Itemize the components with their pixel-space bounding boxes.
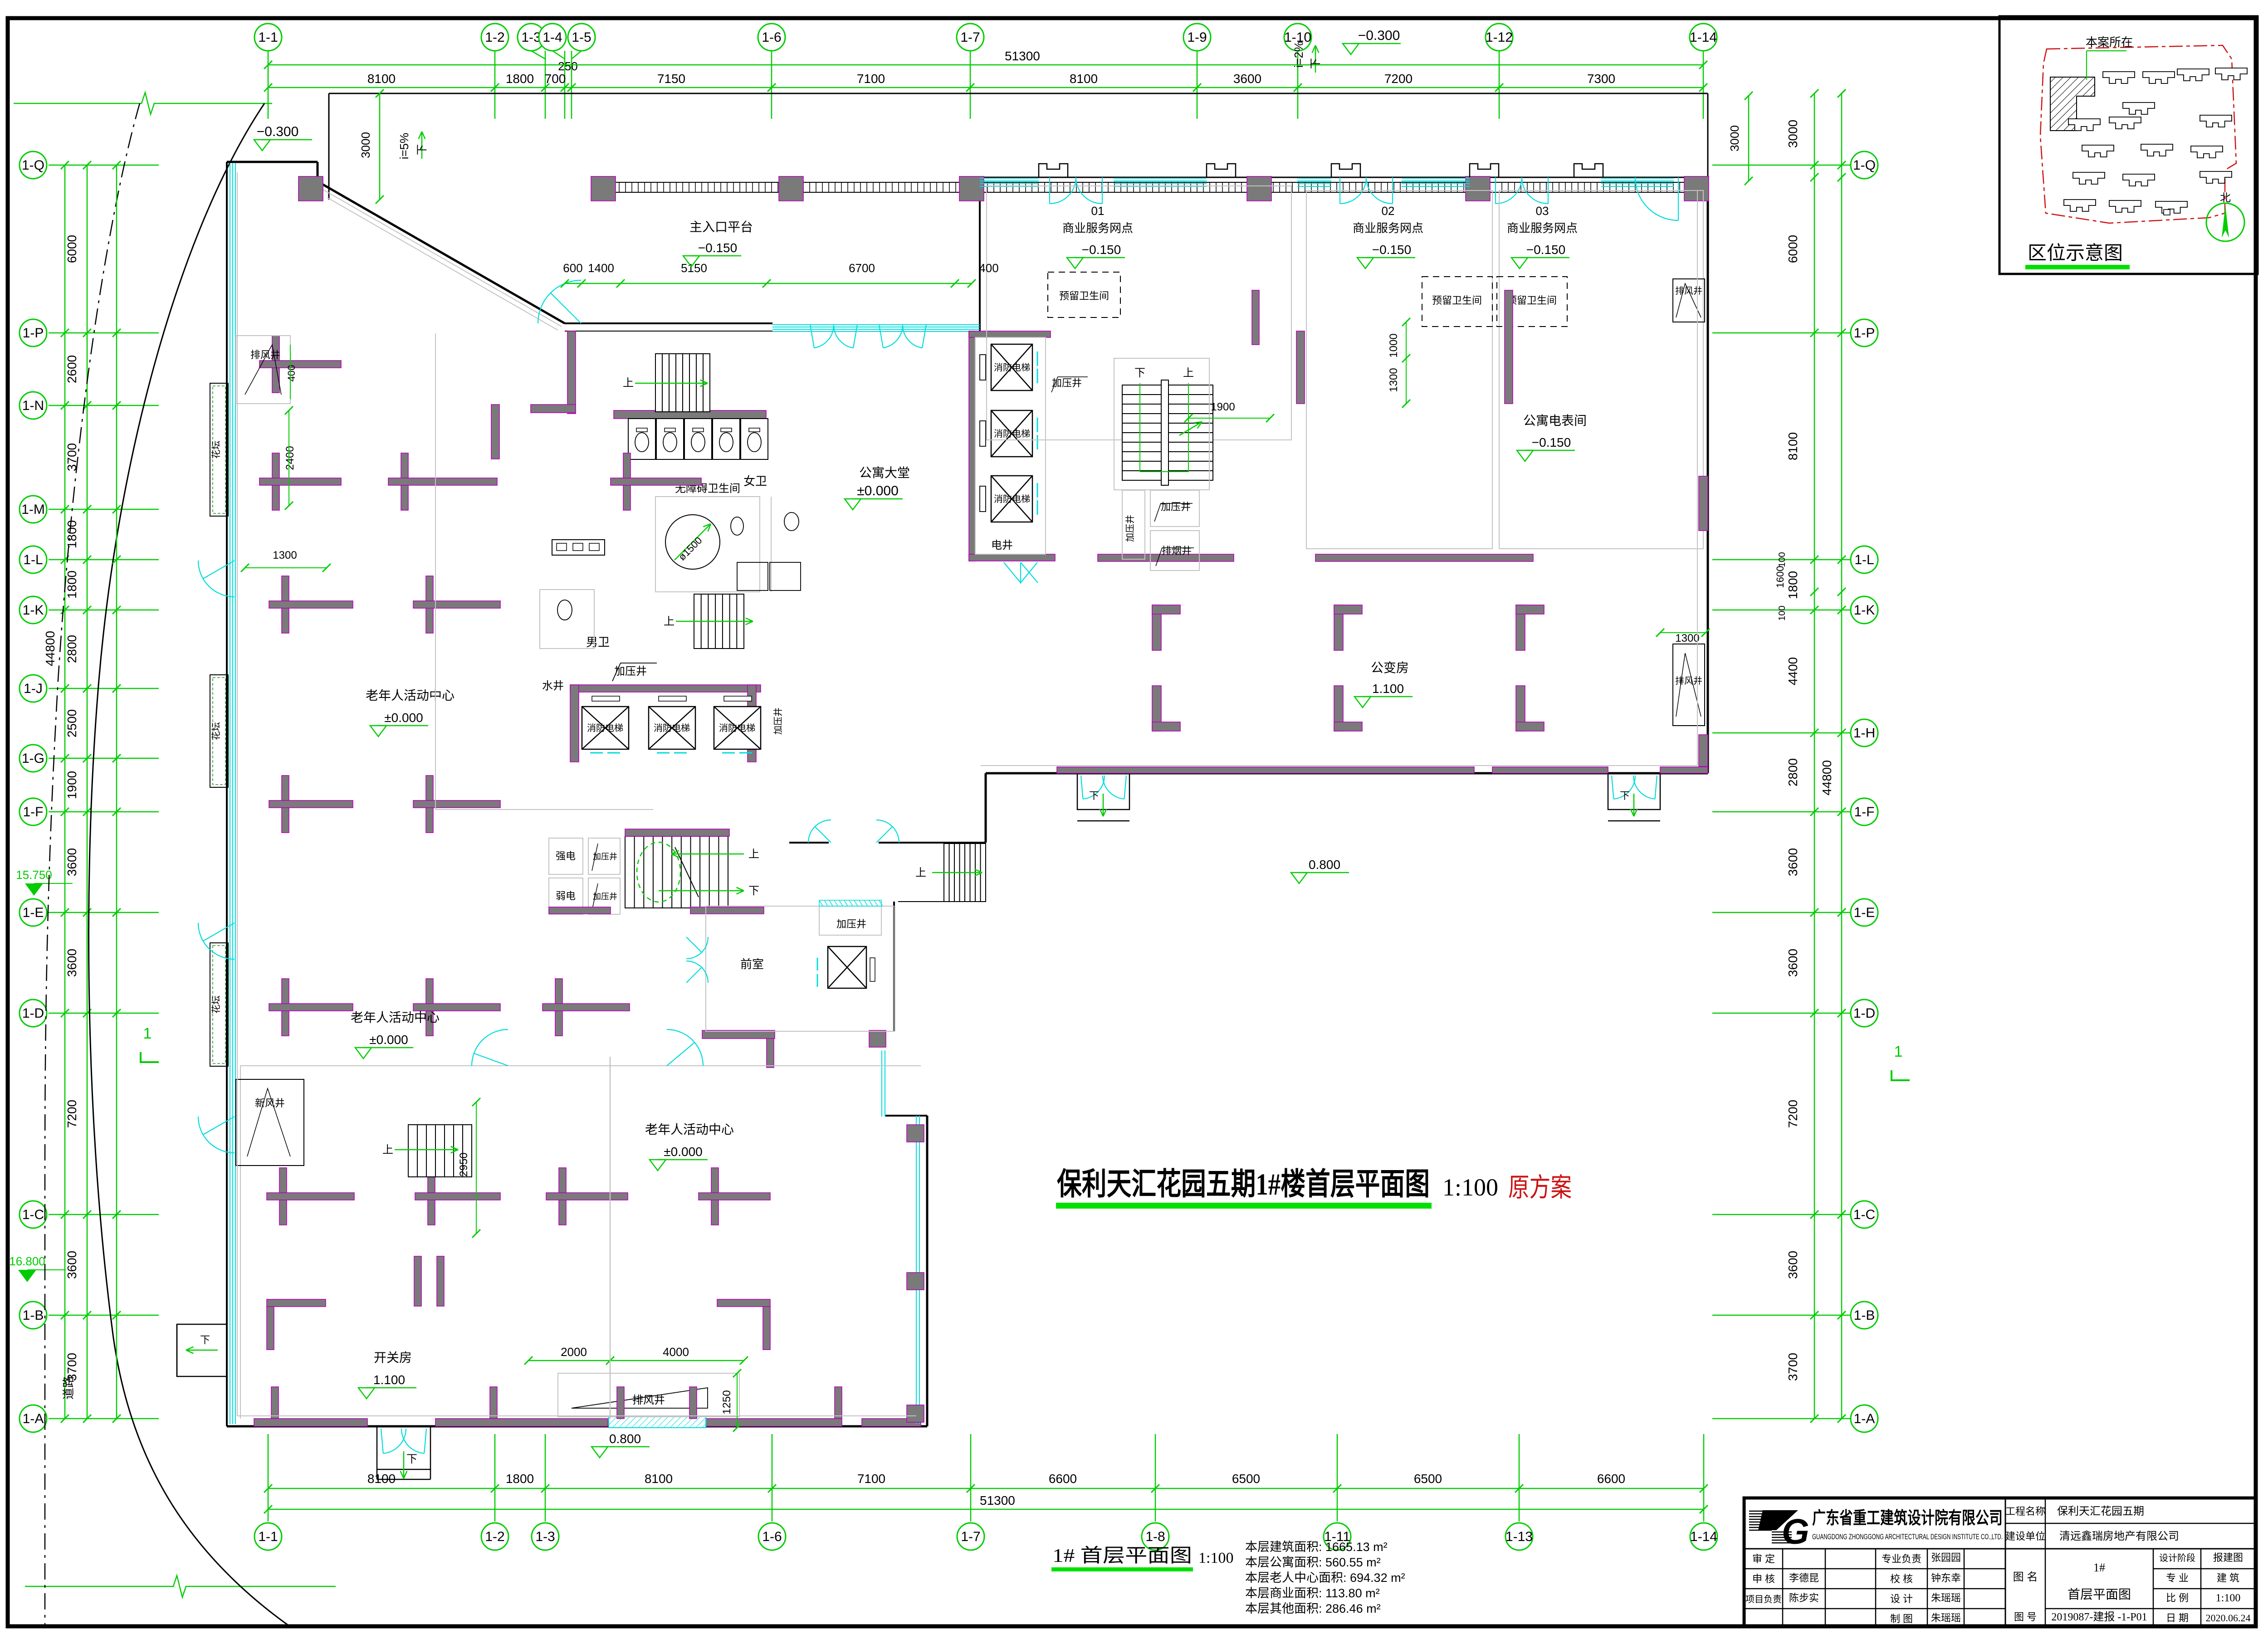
svg-text:7100: 7100 [857, 72, 885, 86]
svg-text:加压井: 加压井 [1052, 377, 1082, 389]
svg-text:1:100: 1:100 [1442, 1174, 1498, 1201]
svg-text:400: 400 [979, 261, 998, 275]
svg-text:15.750: 15.750 [16, 868, 52, 882]
core left wall [969, 331, 975, 561]
svg-text:广东省重工建筑设计院有限公司: 广东省重工建筑设计院有限公司 [1812, 1509, 2003, 1528]
svg-text:1900: 1900 [1211, 401, 1235, 413]
svg-text:下: 下 [416, 144, 428, 155]
svg-text:专业负责: 专业负责 [1882, 1553, 1921, 1565]
right wing inner light lines [981, 765, 1697, 766]
platform dim 3000 left [379, 93, 381, 200]
site boundary green line bottom-left with break symbol [25, 1586, 163, 1587]
transformer room wall brackets [1152, 605, 1161, 650]
svg-text:2600: 2600 [65, 355, 79, 383]
location map frame [1999, 16, 2258, 274]
stair 1 (upper) [655, 354, 710, 412]
storefront entrance double doors (cyan) [1049, 177, 1050, 204]
svg-text:2020.06.24: 2020.06.24 [2206, 1612, 2251, 1624]
svg-text:1800: 1800 [506, 1472, 534, 1486]
svg-text:弱电: 弱电 [556, 890, 576, 902]
svg-text:i=5%: i=5% [397, 133, 411, 160]
svg-text:3600: 3600 [65, 949, 79, 977]
wall bar [269, 800, 353, 808]
svg-text:2500: 2500 [65, 709, 79, 737]
svg-text:1-N: 1-N [22, 398, 44, 413]
edge column [907, 1273, 924, 1290]
svg-text:−0.150: −0.150 [1526, 243, 1565, 257]
svg-text:排风井: 排风井 [632, 1394, 665, 1406]
dim row 600 1400 5150 6700 400 [565, 283, 972, 284]
left wing inner face lines [237, 172, 238, 1416]
svg-text:前室: 前室 [740, 957, 764, 971]
left inner dimension line [116, 165, 117, 1419]
entrance door on diagonal [551, 293, 581, 323]
svg-text:1900: 1900 [65, 771, 79, 799]
svg-text:强电: 强电 [556, 850, 576, 862]
svg-text:1600: 1600 [1774, 566, 1786, 588]
doors inside hall [474, 1054, 508, 1066]
svg-text:1: 1 [143, 1025, 152, 1042]
svg-text:商业服务网点: 商业服务网点 [1353, 221, 1423, 235]
svg-text:1-6: 1-6 [762, 1529, 782, 1544]
inner recess walls [985, 773, 987, 843]
svg-text:6000: 6000 [1786, 235, 1800, 263]
svg-text:1-2: 1-2 [485, 1529, 504, 1544]
svg-text:设计阶段: 设计阶段 [2159, 1553, 2195, 1563]
svg-text:1:100: 1:100 [2216, 1592, 2241, 1604]
exit porch right wing 2 [1608, 773, 1660, 810]
svg-text:本层建筑面积: 1665.13 m²: 本层建筑面积: 1665.13 m² [1245, 1540, 1388, 1554]
green underline of title [1056, 1203, 1432, 1209]
interior partition left wing vertical [610, 1057, 611, 1419]
mid elevator row walls [570, 685, 761, 692]
svg-text:51300: 51300 [980, 1493, 1015, 1507]
svg-text:8100: 8100 [1070, 72, 1098, 86]
corner shop door (cyan) [1678, 177, 1679, 220]
svg-text:排风井: 排风井 [1675, 676, 1702, 686]
svg-text:2400: 2400 [284, 446, 296, 470]
svg-text:1-1: 1-1 [258, 30, 278, 45]
svg-text:日 期: 日 期 [2166, 1612, 2189, 1624]
svg-text:6500: 6500 [1414, 1472, 1442, 1486]
svg-text:51300: 51300 [1005, 49, 1040, 63]
svg-text:1800: 1800 [65, 520, 79, 548]
svg-text:项目负责: 项目负责 [1745, 1594, 1782, 1605]
svg-text:±0.000: ±0.000 [384, 711, 423, 725]
svg-text:上: 上 [748, 848, 759, 860]
svg-text:电井: 电井 [991, 539, 1013, 551]
svg-text:下: 下 [200, 1334, 210, 1346]
upper stair right of core [1122, 385, 1213, 480]
svg-text:1-E: 1-E [23, 905, 44, 920]
svg-text:1300: 1300 [1388, 368, 1400, 392]
svg-text:±0.000: ±0.000 [857, 483, 899, 498]
left wing right edge curtain wall [916, 1116, 917, 1424]
svg-text:1-12: 1-12 [1486, 30, 1513, 45]
svg-text:4400: 4400 [1786, 657, 1800, 685]
bottom row stubs [271, 1387, 279, 1419]
top axis bubbles and vertical grid lines [268, 51, 269, 119]
platform dim 3000 right [1748, 96, 1750, 181]
walls around scissor stair [625, 829, 729, 836]
mid fire elevators [582, 707, 629, 749]
svg-text:1300: 1300 [1675, 632, 1699, 644]
svg-text:2000: 2000 [561, 1345, 587, 1359]
wall bar [413, 1004, 500, 1011]
svg-text:100: 100 [1777, 605, 1787, 620]
svg-text:报建图: 报建图 [2213, 1552, 2243, 1563]
wall bar [267, 1193, 354, 1200]
svg-text:花坛: 花坛 [211, 995, 221, 1014]
svg-text:1-M: 1-M [21, 502, 45, 517]
svg-text:1-A: 1-A [23, 1411, 44, 1426]
exit porch bottom-left [377, 1426, 430, 1469]
svg-text:1-D: 1-D [22, 1006, 44, 1021]
svg-text:1-14: 1-14 [1690, 1529, 1717, 1544]
svg-text:3000: 3000 [1786, 120, 1800, 148]
svg-text:排烟井: 排烟井 [1162, 545, 1192, 556]
svg-text:比 例: 比 例 [2166, 1592, 2189, 1604]
svg-text:消防电梯: 消防电梯 [654, 723, 690, 733]
svg-text:01: 01 [1091, 204, 1105, 218]
column [959, 176, 984, 201]
svg-text:上: 上 [664, 615, 675, 628]
svg-text:02: 02 [1382, 204, 1395, 218]
svg-text:申 核: 申 核 [1752, 1573, 1775, 1585]
svg-text:03: 03 [1536, 204, 1549, 218]
top overall dimension 51300 [268, 64, 1703, 66]
svg-text:250: 250 [558, 59, 577, 73]
svg-text:审 定: 审 定 [1752, 1553, 1775, 1565]
doors on left face [203, 561, 235, 579]
svg-text:0.800: 0.800 [609, 1432, 641, 1446]
svg-text:1250: 1250 [721, 1390, 733, 1414]
core room outline [975, 337, 1046, 554]
svg-text:0.800: 0.800 [1309, 858, 1340, 872]
svg-text:1-H: 1-H [1853, 726, 1875, 741]
svg-text:3600: 3600 [1786, 1251, 1800, 1279]
svg-text:8100: 8100 [645, 1472, 673, 1486]
wall bar [259, 478, 341, 485]
bottom wall gray band with window [254, 1419, 367, 1426]
covered walkway strip [613, 182, 1696, 183]
svg-text:保利天汇花园五期: 保利天汇花园五期 [2057, 1505, 2144, 1517]
reserved toilet dashed boxes [1048, 272, 1120, 317]
svg-text:1#: 1# [2093, 1561, 2105, 1574]
svg-text:1-K: 1-K [1854, 603, 1875, 618]
storefront door frames (black) [1039, 164, 1068, 177]
right dimension chain [1814, 93, 1815, 1419]
svg-text:张园园: 张园园 [1931, 1552, 1961, 1563]
svg-text:3600: 3600 [65, 1251, 79, 1279]
top-left vent room [236, 336, 290, 404]
svg-text:北: 北 [2220, 192, 2231, 204]
svg-text:±0.000: ±0.000 [369, 1033, 408, 1047]
left axis bubbles and horizontal grid lines [49, 165, 159, 166]
wall bar [413, 800, 500, 808]
toilet stalls nvwei [628, 419, 655, 459]
svg-text:1-D: 1-D [1853, 1006, 1875, 1021]
svg-text:1-9: 1-9 [1187, 30, 1207, 45]
building outline: bottom of right wing [986, 772, 1708, 775]
canopy / platform top edge [329, 93, 1708, 94]
bottom dimension chain [268, 1488, 1704, 1489]
shafts paiqijing shuijing [737, 562, 768, 590]
svg-text:1-G: 1-G [22, 751, 44, 766]
svg-text:花坛: 花坛 [211, 441, 221, 459]
svg-text:图 号: 图 号 [2014, 1611, 2037, 1623]
building outline: top-left block [227, 161, 318, 163]
small WC right [784, 512, 799, 531]
svg-text:2019087-建报 -1-P01: 2019087-建报 -1-P01 [2051, 1611, 2147, 1623]
dims 2000 4000 [528, 1360, 744, 1361]
svg-text:1-2: 1-2 [485, 30, 504, 45]
lobby storefront glazing (cyan) [772, 324, 980, 325]
svg-text:1800: 1800 [1786, 571, 1800, 599]
column [298, 176, 323, 201]
nvwei top wall [614, 410, 766, 419]
stair bottom-left [408, 1125, 472, 1177]
svg-text:加压井: 加压井 [1161, 501, 1191, 512]
svg-text:8100: 8100 [1786, 432, 1800, 460]
wall bar [546, 1193, 628, 1200]
svg-text:老年人活动中心: 老年人活动中心 [366, 688, 455, 702]
svg-text:公寓大堂: 公寓大堂 [859, 466, 910, 480]
svg-text:本层老人中心面积: 694.32 m²: 本层老人中心面积: 694.32 m² [1245, 1571, 1405, 1585]
svg-text:制 图: 制 图 [1890, 1613, 1913, 1624]
svg-text:首层平面图: 首层平面图 [2068, 1587, 2131, 1601]
svg-text:1-K: 1-K [23, 603, 44, 618]
svg-text:600: 600 [563, 261, 582, 275]
svg-text:6600: 6600 [1597, 1472, 1625, 1486]
lobby left wall [567, 331, 576, 414]
wall bar [543, 1004, 630, 1011]
svg-text:7300: 7300 [1587, 72, 1615, 86]
building outline: bottom face of left wing [227, 1425, 927, 1428]
svg-text:女卫: 女卫 [743, 474, 767, 488]
svg-text:上: 上 [623, 377, 634, 389]
svg-text:朱瑶瑶: 朱瑶瑶 [1931, 1592, 1961, 1604]
svg-text:加压井: 加压井 [593, 852, 617, 861]
svg-text:下: 下 [1089, 790, 1099, 801]
svg-text:1400: 1400 [588, 261, 614, 275]
svg-text:±0.000: ±0.000 [664, 1145, 702, 1159]
svg-text:1-C: 1-C [1853, 1207, 1875, 1222]
svg-text:消防电梯: 消防电梯 [587, 723, 623, 733]
svg-text:钟东幸: 钟东幸 [1931, 1572, 1961, 1584]
svg-text:保利天汇花园五期1#楼首层平面图: 保利天汇花园五期1#楼首层平面图 [1057, 1167, 1430, 1201]
svg-text:16.800: 16.800 [9, 1254, 45, 1268]
wall bar [259, 361, 341, 368]
svg-text:3000: 3000 [359, 132, 372, 158]
svg-text:44800: 44800 [43, 631, 57, 666]
svg-text:3600: 3600 [1786, 949, 1800, 977]
svg-text:原方案: 原方案 [1508, 1173, 1572, 1202]
svg-text:下: 下 [1310, 58, 1322, 69]
svg-text:1-F: 1-F [23, 805, 44, 819]
svg-text:消防电梯: 消防电梯 [719, 723, 755, 733]
right edge gray walls [1699, 476, 1708, 531]
svg-text:7200: 7200 [65, 1100, 79, 1128]
title block outer [1744, 1498, 2256, 1627]
parcel boundary curve (dash-dot) [45, 103, 140, 1627]
right wing interior gray walls [1296, 331, 1305, 404]
svg-text:排风井: 排风井 [1675, 286, 1702, 296]
svg-text:商业服务网点: 商业服务网点 [1062, 221, 1133, 235]
lobby front wall [565, 322, 772, 324]
svg-text:1.100: 1.100 [373, 1373, 405, 1387]
svg-text:设 计: 设 计 [1890, 1593, 1913, 1605]
svg-text:1-L: 1-L [23, 552, 43, 567]
left face exit porch [177, 1324, 227, 1376]
washbasin counter [552, 540, 605, 555]
svg-text:上: 上 [915, 867, 926, 879]
svg-text:图 名: 图 名 [2013, 1571, 2038, 1583]
svg-text:工程名称: 工程名称 [2005, 1506, 2045, 1517]
svg-text:本层商业面积: 113.80 m²: 本层商业面积: 113.80 m² [1245, 1586, 1380, 1600]
svg-text:400: 400 [286, 365, 297, 382]
svg-text:开关房: 开关房 [374, 1351, 412, 1365]
lobby inner light lines [435, 333, 436, 810]
vent shafts right edge [1673, 279, 1705, 322]
svg-text:1-7: 1-7 [960, 30, 980, 45]
core top bar [969, 331, 1051, 337]
bottom axis bubbles and vertical grid lines [268, 1434, 269, 1522]
svg-text:校 核: 校 核 [1890, 1573, 1913, 1585]
svg-text:商业服务网点: 商业服务网点 [1507, 221, 1578, 235]
svg-text:44800: 44800 [1820, 760, 1834, 795]
svg-text:区位示意图: 区位示意图 [2028, 243, 2123, 264]
column [1466, 176, 1490, 201]
edge column [907, 1125, 924, 1142]
svg-text:老年人活动中心: 老年人活动中心 [645, 1122, 734, 1137]
svg-text:李德昆: 李德昆 [1789, 1572, 1819, 1584]
red parcel boundary [2040, 45, 2236, 223]
svg-text:3600: 3600 [1233, 72, 1261, 86]
svg-text:1-14: 1-14 [1690, 30, 1717, 45]
svg-text:1-P: 1-P [23, 326, 44, 341]
edge column [907, 1405, 924, 1422]
svg-text:1-1: 1-1 [258, 1529, 278, 1544]
svg-text:加压井: 加压井 [836, 918, 866, 930]
svg-text:7200: 7200 [1786, 1100, 1800, 1128]
svg-text:2800: 2800 [65, 635, 79, 663]
svg-text:1-A: 1-A [1854, 1411, 1875, 1426]
svg-text:1800: 1800 [65, 571, 79, 599]
svg-text:下: 下 [748, 885, 759, 897]
core exit door cyan [1004, 562, 1021, 583]
storefront line top right [980, 177, 1708, 178]
svg-text:道路: 道路 [62, 1376, 75, 1400]
svg-text:新风井: 新风井 [255, 1098, 285, 1109]
svg-text:消防电梯: 消防电梯 [994, 429, 1030, 439]
svg-text:7200: 7200 [1384, 72, 1413, 86]
right axis bubbles and horizontal grid lines [1712, 165, 1851, 166]
svg-text:1: 1 [1894, 1043, 1903, 1060]
svg-text:1300: 1300 [273, 549, 297, 561]
lobby entrance double doors (cyan) [810, 325, 814, 348]
curtain wall right edge of qianshi [881, 1050, 882, 1117]
column [779, 176, 803, 201]
outdoor stair at inner corner [944, 844, 986, 902]
svg-text:下: 下 [406, 1453, 417, 1465]
svg-text:1-J: 1-J [24, 681, 43, 696]
svg-text:7100: 7100 [857, 1472, 885, 1486]
svg-text:−0.300: −0.300 [1358, 28, 1400, 43]
svg-text:预留卫生间: 预留卫生间 [1432, 295, 1482, 306]
stair room outline [1114, 358, 1209, 490]
svg-text:加压井: 加压井 [773, 707, 783, 735]
svg-text:预留卫生间: 预留卫生间 [1507, 295, 1557, 306]
site building hatched (ben an suo zai) [2050, 77, 2095, 131]
planters (hua tan) on left face [210, 383, 228, 516]
svg-text:老年人活动中心: 老年人活动中心 [351, 1010, 440, 1024]
xinfengjing room bottom-left [236, 1079, 304, 1166]
wall bar [413, 601, 500, 608]
row B corner walls [267, 1299, 326, 1307]
bottom vent room (pai feng jing) [558, 1373, 739, 1417]
column [591, 176, 616, 201]
accessible WC [655, 497, 760, 592]
svg-text:3600: 3600 [1786, 848, 1800, 876]
svg-text:−0.300: −0.300 [257, 124, 299, 139]
left face curtain wall (cyan) [230, 163, 230, 1424]
svg-text:1800: 1800 [506, 72, 534, 86]
core bottom bar [969, 554, 1055, 561]
svg-text:2950: 2950 [458, 1152, 470, 1176]
svg-text:本层公寓面积: 560.55 m²: 本层公寓面积: 560.55 m² [1245, 1556, 1381, 1569]
svg-text:男卫: 男卫 [586, 635, 610, 649]
svg-text:−0.150: −0.150 [1532, 435, 1571, 449]
svg-text:下: 下 [1134, 367, 1145, 379]
title block grid [1744, 1548, 2256, 1550]
strong/weak electric rooms [549, 838, 583, 874]
svg-text:1-B: 1-B [1854, 1308, 1875, 1323]
svg-text:3700: 3700 [1786, 1353, 1800, 1381]
svg-text:1-Q: 1-Q [1853, 158, 1876, 173]
svg-text:1-F: 1-F [1854, 805, 1875, 819]
column [1247, 176, 1271, 201]
wall bar [415, 1193, 500, 1200]
svg-text:−0.150: −0.150 [1082, 243, 1121, 257]
svg-text:−0.150: −0.150 [698, 241, 737, 255]
svg-text:公变房: 公变房 [1371, 661, 1409, 675]
svg-text:1-5: 1-5 [572, 30, 591, 45]
road edge curve (solid) [89, 103, 290, 1627]
wall bar [611, 478, 701, 485]
design institute logo [1749, 1511, 1772, 1512]
building outline: right face [1707, 177, 1709, 773]
svg-text:1:100: 1:100 [1198, 1550, 1233, 1566]
site boundary green line top-left with break symbol [14, 103, 132, 104]
column [1684, 176, 1709, 201]
wall bar [269, 1004, 353, 1011]
svg-text:8100: 8100 [367, 1472, 396, 1486]
svg-text:1-C: 1-C [22, 1207, 44, 1222]
wall bar [269, 601, 353, 608]
svg-text:主入口平台: 主入口平台 [689, 220, 753, 234]
right wing top interior outlines [987, 186, 1291, 440]
recess double door (cyan) [815, 827, 831, 843]
wall bar [388, 478, 497, 485]
svg-text:1.100: 1.100 [1372, 682, 1404, 696]
svg-text:4000: 4000 [663, 1345, 689, 1359]
svg-text:建设单位: 建设单位 [2005, 1531, 2045, 1542]
svg-text:6500: 6500 [1232, 1472, 1260, 1486]
surrounding buildings [2103, 72, 2135, 83]
svg-text:1-4: 1-4 [543, 30, 562, 45]
svg-text:预留卫生间: 预留卫生间 [1059, 290, 1109, 302]
